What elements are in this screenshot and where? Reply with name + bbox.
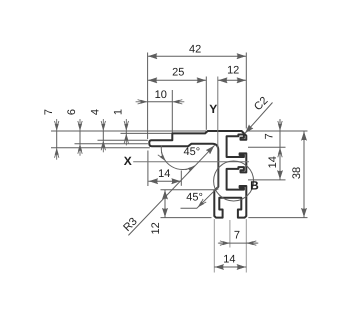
svg-text:38: 38 — [291, 167, 303, 179]
svg-text:45°: 45° — [183, 146, 200, 158]
svg-text:7: 7 — [264, 133, 276, 139]
svg-text:7: 7 — [234, 230, 240, 242]
svg-text:12: 12 — [227, 65, 239, 77]
svg-text:12: 12 — [150, 222, 162, 234]
svg-text:25: 25 — [172, 67, 184, 79]
svg-text:Y: Y — [209, 102, 217, 116]
svg-text:4: 4 — [89, 109, 101, 115]
svg-text:C2: C2 — [252, 95, 270, 113]
svg-text:14: 14 — [158, 168, 170, 180]
svg-text:45°: 45° — [186, 192, 203, 204]
svg-text:14: 14 — [223, 254, 235, 266]
svg-text:7: 7 — [43, 109, 55, 115]
svg-text:B: B — [250, 179, 259, 193]
svg-text:1: 1 — [112, 109, 124, 115]
svg-text:42: 42 — [189, 44, 201, 56]
svg-text:14: 14 — [267, 156, 279, 168]
svg-text:6: 6 — [66, 109, 78, 115]
svg-text:R3: R3 — [121, 216, 139, 234]
svg-text:10: 10 — [155, 89, 167, 101]
svg-text:X: X — [124, 154, 132, 168]
